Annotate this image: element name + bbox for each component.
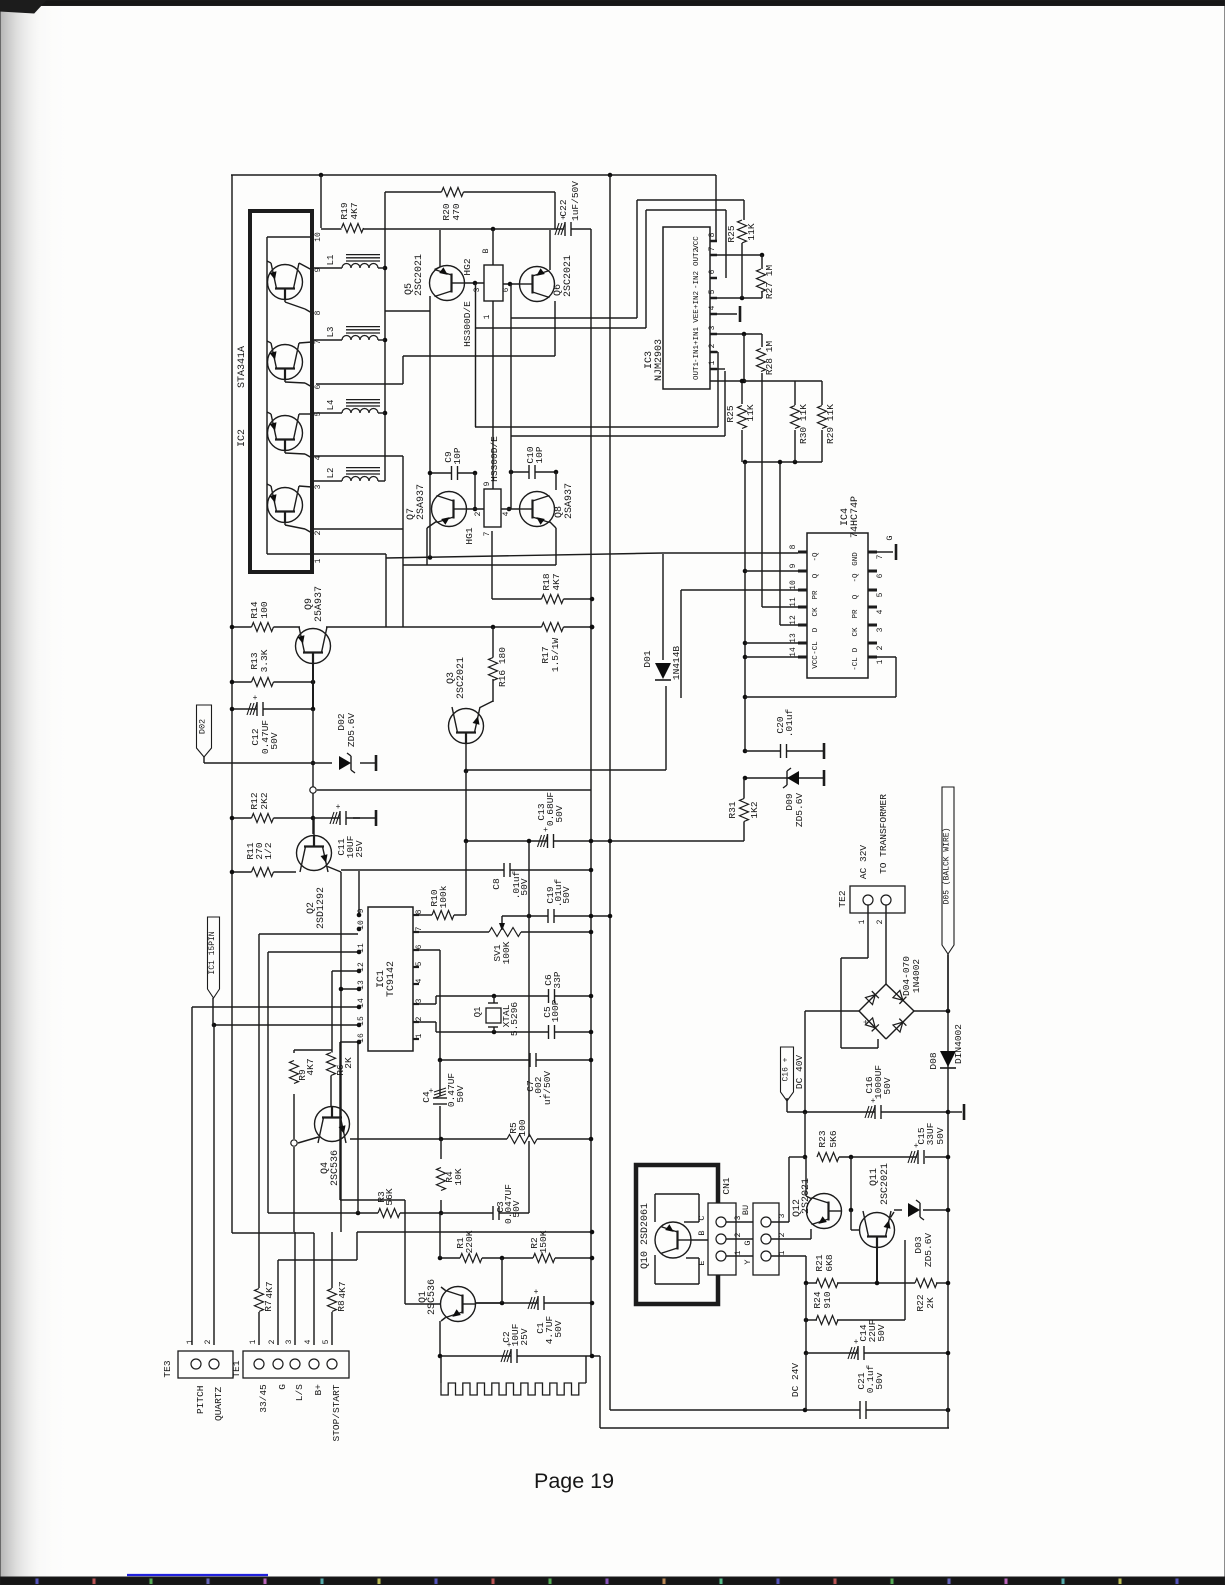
connector TE1 box: [243, 1351, 349, 1378]
wire bottom row y1428: [600, 1427, 949, 1429]
svg-text:CK: CK: [852, 627, 860, 637]
wire IC4 pin11 row: [762, 606, 798, 608]
wire Q12 collector riser: [805, 1157, 807, 1196]
IC1 pin 10: [357, 927, 362, 932]
svg-text:2SC2021: 2SC2021: [880, 1163, 891, 1205]
wire R20 row: [385, 191, 555, 193]
node x745 pin14: [743, 655, 748, 660]
capacitor C6: [549, 994, 555, 998]
wire IC3 pin2 drop: [717, 352, 719, 427]
node C13 row x466: [464, 839, 469, 844]
wire pin6 net down: [510, 284, 512, 436]
wire right outer column x948: [947, 955, 949, 1428]
svg-text:C22: C22: [558, 199, 569, 216]
svg-text:TO TRANSFORMER: TO TRANSFORMER: [878, 794, 889, 874]
flag C16+ DC40V: [781, 1047, 794, 1101]
svg-text:10P: 10P: [452, 447, 463, 464]
IC2 internal transistor 4 collector wire: [299, 486, 312, 487]
svg-text:+: +: [534, 1288, 539, 1297]
node R3 x358: [356, 1211, 361, 1216]
svg-text:1: 1: [876, 659, 885, 664]
wire R31 column: [743, 778, 745, 799]
wire x851 drop to Q11 base: [850, 1157, 852, 1210]
node B+ C12: [230, 707, 235, 712]
wire L2 right: [378, 480, 385, 482]
wire x805 to R23: [804, 1112, 806, 1157]
svg-text:1: 1: [734, 1250, 743, 1255]
svg-text:5: 5: [322, 1339, 331, 1344]
TE1 pin 2 G: [273, 1359, 283, 1369]
wire x806 to bottom: [805, 1353, 807, 1410]
node R4 top: [439, 1137, 444, 1142]
svg-text:50V: 50V: [455, 1085, 466, 1102]
wire R8 riser: [331, 1232, 333, 1288]
wire x340 drop: [339, 1042, 341, 1200]
svg-text:D02: D02: [198, 719, 208, 734]
node R12 x313: [311, 816, 316, 821]
svg-text:4K7: 4K7: [551, 573, 562, 590]
svg-text:+: +: [336, 803, 341, 812]
wire y381 to R29/R30 nets: [744, 380, 822, 382]
wire TE1 pin2 column: [277, 1260, 279, 1345]
flag D05 BALCK WIRE: [942, 787, 954, 954]
wire Q4 base stub: [298, 1137, 319, 1143]
wire Q7 base link: [467, 508, 484, 510]
wire x214 column TE3 pin2: [213, 1025, 215, 1345]
svg-text:4: 4: [876, 609, 885, 614]
transistor Q3: [449, 709, 484, 744]
svg-text:4K7: 4K7: [349, 202, 360, 219]
CN1 B pin 3: [761, 1217, 771, 1227]
wire Q9 emitter drop: [312, 663, 314, 709]
svg-text:11: 11: [789, 597, 798, 607]
svg-text:8: 8: [314, 310, 323, 315]
wire IC4 pin14 row: [745, 656, 798, 658]
wire x806 column: [805, 1283, 807, 1353]
svg-text:5.5296: 5.5296: [509, 1002, 520, 1037]
resistor R9: [292, 1061, 296, 1084]
svg-text:6K8: 6K8: [824, 1254, 835, 1271]
wire Q11 base drop: [876, 1247, 878, 1283]
svg-text:uf/50V: uf/50V: [542, 1071, 553, 1106]
wire L2 left: [312, 480, 342, 482]
svg-text:33P: 33P: [552, 971, 563, 988]
capacitor C1: [538, 1301, 544, 1305]
wire IC1 pin11 row: [268, 951, 358, 953]
crossover Q4 base: [291, 1140, 297, 1146]
wire R20 right drop: [554, 192, 556, 229]
svg-text:+IN1: +IN1: [693, 327, 701, 346]
IC3 pin 5 +IN2: [710, 297, 717, 300]
node XTAL bottom: [492, 1030, 497, 1035]
IC1 pin 8: [413, 914, 419, 916]
wire R1 R2 row y1258: [440, 1257, 592, 1259]
wire L1 right: [378, 267, 385, 269]
svg-text:50V: 50V: [882, 1077, 893, 1094]
wire IC3 pin8 riser: [715, 175, 717, 241]
node R25a bottom junction: [740, 296, 745, 301]
wire x313 column: [312, 709, 314, 834]
capacitor C5: [549, 1030, 555, 1034]
IC3 pin 1 OUT1: [710, 368, 717, 371]
resistor R24: [816, 1318, 838, 1322]
wire IC1 pin3 jog: [417, 1003, 436, 1005]
connector CN1 box A: [708, 1203, 736, 1275]
svg-text:R27 1M: R27 1M: [764, 265, 775, 300]
IC4 pin 5 Q: [868, 589, 877, 592]
svg-text:7: 7: [876, 554, 885, 559]
wire Q1 base row: [405, 1303, 441, 1305]
IC1 pin 2: [413, 1021, 419, 1023]
wire y790 long row: [317, 789, 591, 791]
svg-text:2SC536: 2SC536: [330, 1150, 341, 1186]
svg-text:2SC2021: 2SC2021: [456, 657, 467, 699]
wire R13 row: [232, 681, 313, 683]
svg-text:Q: Q: [812, 573, 820, 578]
wire IC3 pin1 drop: [724, 371, 726, 436]
motor unit G10 box: [636, 1165, 718, 1304]
wire R29 lower stub: [821, 430, 823, 462]
wire R6 to Q4 collector: [330, 1075, 332, 1106]
wire R9 lower column: [293, 1094, 295, 1139]
resistor R17: [542, 625, 564, 629]
flag IC1 15PIN: [208, 917, 220, 998]
svg-text:7: 7: [415, 926, 424, 931]
TE1 pin 1 33/45: [254, 1359, 264, 1369]
svg-text:50V: 50V: [269, 732, 280, 749]
wire R11 row: [232, 871, 296, 873]
svg-text:C16 +: C16 +: [782, 1057, 791, 1081]
wire TE1 pin5 column: [331, 1312, 333, 1345]
wire Q9 collector row: [326, 626, 592, 628]
svg-text:4K7: 4K7: [305, 1058, 316, 1075]
svg-text:OUT1: OUT1: [693, 362, 701, 381]
wire Q7 emitter link: [427, 521, 437, 528]
svg-text:470: 470: [451, 203, 462, 220]
resistor R20: [442, 190, 464, 194]
svg-text:3.3K: 3.3K: [259, 649, 270, 672]
wire C7 row y1060: [440, 1059, 591, 1061]
wire C11 row: [313, 817, 360, 819]
wire C9 right drop: [474, 473, 476, 509]
node y1356 x440: [438, 1354, 443, 1359]
wire Q5 emitter feed: [385, 310, 430, 312]
svg-text:50V: 50V: [935, 1127, 946, 1144]
transistor Q8: [520, 492, 555, 527]
resistor R23: [817, 1155, 839, 1159]
svg-text:25A937: 25A937: [314, 586, 325, 622]
svg-text:5: 5: [708, 289, 717, 294]
wire x259 column: [258, 934, 260, 1288]
wire x502 link: [501, 1258, 503, 1303]
wire SV1 right row: [521, 931, 591, 933]
resistor R1: [460, 1256, 482, 1260]
IC1 pin 15: [357, 1023, 362, 1028]
svg-text:2SD1292: 2SD1292: [316, 887, 327, 929]
svg-text:74HC74P: 74HC74P: [850, 496, 861, 538]
wire R19 drop: [320, 175, 322, 228]
node B+ R13: [230, 680, 235, 685]
wire nested route B row y328: [476, 327, 646, 329]
TE1 pin 5 STOP/START: [327, 1359, 337, 1369]
node C7 x440: [438, 1058, 443, 1063]
wire D09 row: [745, 777, 824, 779]
svg-text:-IN2: -IN2: [693, 271, 701, 289]
node C10 left: [509, 470, 514, 475]
svg-text:TE3: TE3: [162, 1360, 173, 1377]
svg-text:+: +: [253, 694, 258, 703]
node y462 x745: [743, 460, 748, 465]
svg-text:8: 8: [415, 909, 424, 914]
wire Q2 emitter corner: [340, 872, 342, 1232]
inductor L2: [342, 477, 378, 481]
IC2 STA341A package box: [250, 211, 312, 572]
svg-text:50V: 50V: [519, 878, 530, 895]
resistor R30: [793, 406, 797, 429]
wire x403 mid riser: [402, 565, 404, 627]
wire Q11 collector to D03: [891, 1212, 895, 1218]
node R23 right: [849, 1155, 854, 1160]
resistor R2: [533, 1256, 555, 1260]
node y1303 x592: [590, 1301, 595, 1306]
diode D03 zener ZD5.6V: [908, 1203, 920, 1217]
svg-text:2K: 2K: [925, 1297, 936, 1309]
svg-text:IC1 15PIN: IC1 15PIN: [208, 931, 217, 974]
node bridge right x948: [946, 1009, 951, 1014]
svg-text:6: 6: [502, 287, 511, 292]
svg-text:D: D: [852, 647, 860, 652]
svg-text:C4: C4: [421, 1091, 432, 1103]
svg-text:5: 5: [314, 411, 323, 416]
IC4 pin 1 -CL: [868, 656, 877, 659]
wire CN1 pin1 route: [771, 1255, 806, 1257]
svg-text:13: 13: [357, 980, 366, 990]
svg-text:B: B: [697, 1230, 707, 1235]
wire Q9 collector link y563: [386, 553, 663, 558]
svg-text:7: 7: [708, 246, 717, 251]
capacitor C9: [452, 471, 458, 475]
svg-text:L1: L1: [326, 255, 336, 266]
svg-text:50V: 50V: [561, 886, 572, 903]
IC1 pin 4: [413, 983, 419, 985]
svg-text:R23: R23: [817, 1130, 828, 1147]
inductor L1: [342, 264, 378, 269]
wire IC4 net column x762 lower: [761, 381, 763, 607]
node C10 right: [554, 470, 559, 475]
wire x529 link: [528, 843, 530, 916]
wire HG2 B drop x493: [492, 229, 494, 265]
wire TE2 pin2 route: [885, 905, 887, 984]
wire Q1 base route row: [340, 1199, 405, 1201]
transistor Q10: [655, 1222, 691, 1258]
node y1258 x440: [438, 1256, 443, 1261]
svg-text:9: 9: [357, 908, 366, 913]
node B+ R12: [230, 816, 235, 821]
wire x192 column TE3 pin1: [191, 1007, 193, 1345]
svg-text:4: 4: [708, 305, 717, 310]
wire C10 row: [511, 471, 529, 473]
svg-text:150K: 150K: [538, 1230, 549, 1253]
svg-text:25V: 25V: [519, 1328, 530, 1345]
IC4 pin 9 Q: [798, 570, 807, 573]
capacitor C10: [529, 470, 535, 474]
IC2 internal transistor 2: [268, 345, 303, 380]
node R22 x948: [946, 1281, 951, 1286]
wire IC4 pin7 ground stub: [877, 551, 893, 553]
svg-text:10P: 10P: [534, 446, 545, 463]
node C14 left: [804, 1351, 809, 1356]
diode D09 zener ZD5.6V: [787, 771, 799, 785]
svg-text:3: 3: [876, 627, 885, 632]
svg-text:1: 1: [708, 360, 717, 365]
node y1410 x948: [946, 1408, 951, 1413]
wire x386 riser: [385, 554, 387, 558]
svg-text:BU: BU: [741, 1205, 751, 1215]
wire IC3 pin8 stub: [710, 240, 716, 242]
inductor L4: [342, 409, 378, 414]
ground IC3 pin4: [739, 306, 742, 322]
IC2 internal base bus: [266, 237, 268, 554]
svg-text:14: 14: [357, 998, 366, 1008]
node x780 y462: [778, 460, 783, 465]
wire XTAL top row: [436, 995, 591, 997]
svg-text:QUARTZ: QUARTZ: [213, 1386, 224, 1421]
wire IC2 pin1 row: [267, 553, 386, 555]
capacitor C14: [858, 1351, 864, 1355]
wire Q1 base riser: [404, 1200, 406, 1304]
capacitor C22: [565, 227, 571, 231]
wire IC4 net column x745: [744, 462, 746, 751]
svg-text:2SC536: 2SC536: [427, 1279, 438, 1315]
wire IC1 pin16 left jog: [340, 1041, 358, 1043]
svg-text:ZD5.6V: ZD5.6V: [346, 713, 357, 748]
wire nested route B top: [646, 209, 726, 211]
svg-text:1: 1: [778, 1250, 787, 1255]
wire R14 Q9 row y627: [232, 626, 300, 628]
IC2 internal transistor 4: [268, 488, 303, 523]
svg-text:6: 6: [876, 573, 885, 578]
svg-text:2: 2: [474, 511, 483, 516]
wire x357 jog riser: [356, 1232, 358, 1260]
IC1 pin 6: [413, 949, 419, 951]
IC1 pin 11: [357, 950, 362, 955]
svg-text:4K7: 4K7: [337, 1281, 348, 1298]
node C9 left: [428, 471, 433, 476]
svg-text:2: 2: [876, 645, 885, 650]
svg-text:50v: 50v: [874, 1372, 885, 1389]
svg-text:1uF/50V: 1uF/50V: [570, 181, 581, 221]
node y916 x610: [608, 914, 613, 919]
svg-text:Q1: Q1: [473, 1007, 483, 1018]
svg-text:2SC2021: 2SC2021: [414, 254, 425, 296]
scanner top edge bar: [0, 0, 1225, 6]
svg-text:DIN4002: DIN4002: [953, 1024, 964, 1064]
svg-text:2: 2: [708, 343, 717, 348]
wire IC1 pin6 corner: [417, 949, 440, 951]
wire CN1 pin3 route: [771, 1221, 789, 1223]
svg-text:C8: C8: [491, 878, 502, 890]
svg-text:4K7: 4K7: [264, 1281, 275, 1298]
node C13 row x610: [608, 839, 613, 844]
wire C12 row: [232, 708, 313, 710]
IC3 NJM2903 box: [663, 227, 710, 389]
wire nested route A top: [637, 199, 744, 201]
svg-text:8: 8: [708, 232, 717, 237]
node C16 x805: [803, 1110, 808, 1115]
capacitor C8: [504, 868, 510, 872]
wire R28 column top: [761, 334, 763, 347]
node C5 x591: [589, 1030, 594, 1035]
terminal D09 end: [823, 770, 826, 786]
wire x268 column: [267, 952, 269, 1213]
svg-text:CK: CK: [812, 607, 820, 617]
svg-text:3: 3: [778, 1213, 787, 1218]
node coil bus L3: [383, 338, 388, 343]
diode D01 1N414B: [655, 663, 671, 679]
IC4 pin 6 -Q: [868, 570, 877, 573]
node C6 x591: [589, 994, 594, 999]
wire x744 drop pin3 to pin1 row: [743, 334, 745, 381]
wire R16 column: [492, 627, 494, 659]
wire C11 bar link: [353, 817, 376, 819]
wire IC3 pin4 stub: [710, 313, 737, 315]
svg-text:Page 19: Page 19: [534, 1469, 614, 1493]
svg-text:6: 6: [415, 944, 424, 949]
svg-text:R16 180: R16 180: [497, 647, 508, 687]
svg-text:9: 9: [483, 481, 492, 486]
svg-text:PR: PR: [812, 590, 820, 600]
wire HG1 pin7 drop: [491, 531, 493, 599]
node R21 left: [804, 1281, 809, 1286]
wire x905 riser: [904, 1240, 906, 1320]
svg-text:-Q: -Q: [852, 573, 860, 583]
svg-text:11: 11: [357, 943, 366, 953]
IC2 internal transistor 3: [268, 416, 303, 451]
diode D08 DIN4002: [940, 1051, 956, 1067]
wire R28 bottom to y381: [761, 373, 763, 381]
TE1 pin 3 L/S: [290, 1359, 300, 1369]
IC1 pin 16: [357, 1040, 362, 1045]
wire R25b bottom row y462: [744, 461, 822, 463]
wire SV1 wiper drop: [501, 916, 503, 926]
svg-text:ZD5.6V: ZD5.6V: [794, 793, 805, 828]
wire IC2 pin6 row: [316, 383, 403, 385]
IC2 internal transistor 4 emitter wire: [284, 523, 286, 526]
node IC3 pin7 junction: [760, 253, 765, 258]
node Q7 base: [473, 507, 478, 512]
wire Q6 collector: [549, 230, 551, 270]
svg-text:AC 32V: AC 32V: [858, 845, 869, 880]
resistor R25 upper: [740, 220, 744, 243]
svg-text:R28 1M: R28 1M: [764, 341, 775, 376]
wire IC1 pin13 row: [341, 988, 358, 990]
capacitor C21: [860, 1408, 866, 1412]
svg-text:VCC: VCC: [693, 236, 701, 250]
resistor R22: [915, 1281, 937, 1285]
wire pin6 net row y436: [511, 435, 725, 437]
resistor R25 lower: [740, 406, 744, 429]
svg-text:G: G: [277, 1384, 288, 1390]
wire R30 riser: [794, 381, 796, 405]
IC1 pin 9: [357, 913, 362, 918]
transistor Q12: [807, 1194, 842, 1229]
node y462 R30: [793, 460, 798, 465]
wire IC4 pin12 row: [780, 624, 798, 626]
svg-text:D01: D01: [642, 650, 653, 667]
IC1 pin 1: [413, 1038, 419, 1040]
svg-text:DC 40V: DC 40V: [794, 1055, 805, 1090]
IC4 pin 8 -Q: [798, 551, 807, 554]
